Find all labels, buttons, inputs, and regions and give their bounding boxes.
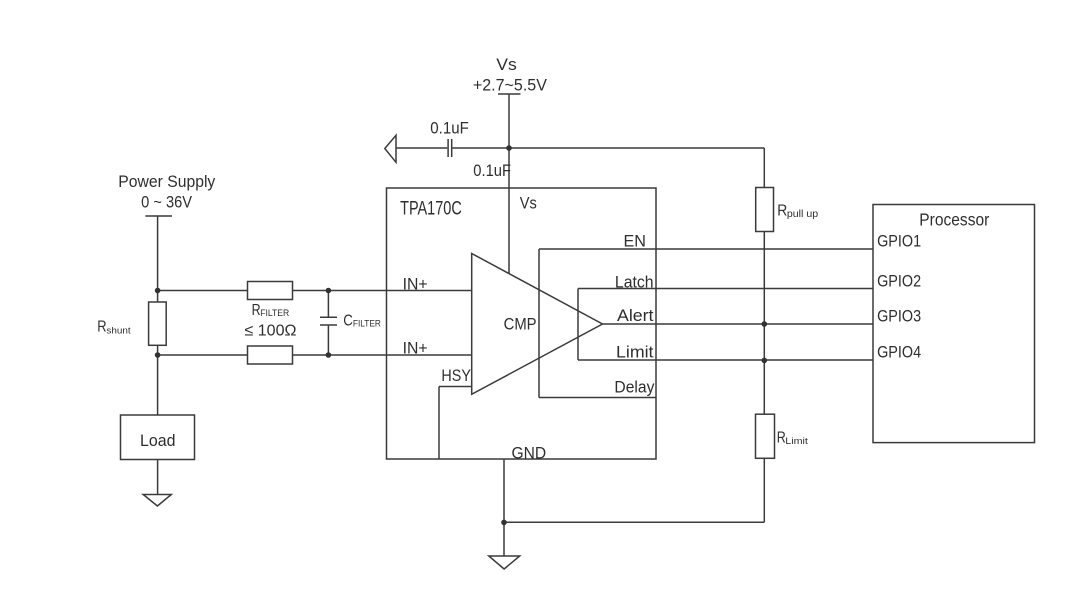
svg-text:≤ 100Ω: ≤ 100Ω	[245, 323, 297, 340]
svg-text:Alert: Alert	[617, 306, 654, 325]
svg-text:C: C	[343, 312, 353, 329]
svg-text:FILTER: FILTER	[260, 308, 289, 318]
svg-text:Load: Load	[140, 431, 176, 450]
svg-text:Processor: Processor	[919, 210, 989, 230]
svg-text:+2.7~5.5V: +2.7~5.5V	[473, 76, 548, 95]
svg-text:Latch: Latch	[615, 272, 654, 291]
svg-text:TPA170C: TPA170C	[400, 199, 462, 220]
svg-text:Delay: Delay	[614, 377, 654, 396]
svg-text:0.1uF: 0.1uF	[430, 118, 469, 137]
svg-text:0 ~ 36V: 0 ~ 36V	[141, 192, 193, 211]
svg-text:CMP: CMP	[504, 316, 537, 334]
svg-text:GND: GND	[512, 444, 547, 462]
svg-text:Vs: Vs	[496, 55, 517, 74]
svg-text:IN+: IN+	[403, 338, 428, 357]
svg-text:HSY: HSY	[441, 366, 471, 385]
svg-text:Limit: Limit	[616, 342, 654, 361]
svg-text:shunt: shunt	[106, 326, 131, 337]
svg-text:0.1uF: 0.1uF	[473, 161, 511, 180]
svg-text:pull up: pull up	[787, 209, 819, 220]
svg-text:EN: EN	[624, 231, 647, 250]
svg-text:GPIO2: GPIO2	[877, 272, 921, 291]
svg-text:IN+: IN+	[403, 274, 428, 293]
svg-text:Power Supply: Power Supply	[118, 172, 215, 191]
svg-text:Vs: Vs	[520, 195, 537, 213]
svg-text:R: R	[97, 319, 106, 336]
svg-text:Limit: Limit	[785, 436, 808, 447]
svg-text:FILTER: FILTER	[353, 319, 381, 329]
svg-text:GPIO4: GPIO4	[877, 342, 921, 361]
svg-text:GPIO3: GPIO3	[877, 306, 921, 325]
svg-text:GPIO1: GPIO1	[877, 231, 921, 250]
svg-text:R: R	[777, 202, 787, 219]
